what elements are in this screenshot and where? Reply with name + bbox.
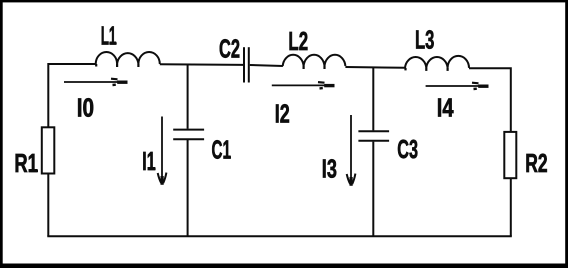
current arrow I1 <box>158 117 167 185</box>
resistor R1 <box>42 127 55 173</box>
wire right branch bottom <box>510 178 512 236</box>
border frame top <box>0 0 568 2</box>
border frame bottom <box>0 264 568 268</box>
svg-text:L2: L2 <box>288 26 308 56</box>
svg-text:I1: I1 <box>142 146 155 176</box>
svg-text:I4: I4 <box>437 93 454 123</box>
wire top segment before L1 <box>48 63 96 65</box>
wire top segment C2 to L2 <box>250 65 283 66</box>
inductor L2 <box>283 55 346 66</box>
wire top segment L1 to C2 <box>160 63 243 66</box>
svg-text:R1: R1 <box>14 148 38 178</box>
svg-text:C2: C2 <box>219 33 240 63</box>
current arrow I2 <box>272 82 335 88</box>
svg-text:L1: L1 <box>101 21 117 51</box>
capacitor C2 <box>243 47 245 82</box>
wire bottom rail <box>47 235 512 237</box>
svg-text:L3: L3 <box>415 25 434 55</box>
svg-text:C1: C1 <box>212 135 231 165</box>
resistor R2 <box>504 132 516 178</box>
svg-text:I3: I3 <box>322 154 337 184</box>
wire C1 branch upper <box>187 65 189 129</box>
svg-text:I2: I2 <box>275 98 290 128</box>
capacitor C3 <box>358 130 389 132</box>
inductor L1 <box>96 52 160 64</box>
border frame left <box>0 0 3 268</box>
wire C3 branch upper <box>372 67 374 130</box>
wire top segment L2 to L3 through node <box>345 66 405 69</box>
wire top segment L3 to right corner <box>469 68 511 132</box>
svg-text:I0: I0 <box>77 92 94 122</box>
border frame right <box>565 0 568 268</box>
current arrow I4 <box>426 83 489 89</box>
wire left branch bottom <box>47 174 49 237</box>
current arrow I3 <box>347 115 356 186</box>
current arrow I0 <box>64 79 128 85</box>
svg-text:C3: C3 <box>397 134 418 164</box>
wire left branch top <box>47 64 48 127</box>
wire C3 branch lower <box>372 142 374 237</box>
capacitor C1 <box>173 129 204 131</box>
wire C1 branch lower <box>187 140 189 236</box>
inductor L3 <box>405 56 469 68</box>
svg-text:R2: R2 <box>525 148 547 178</box>
